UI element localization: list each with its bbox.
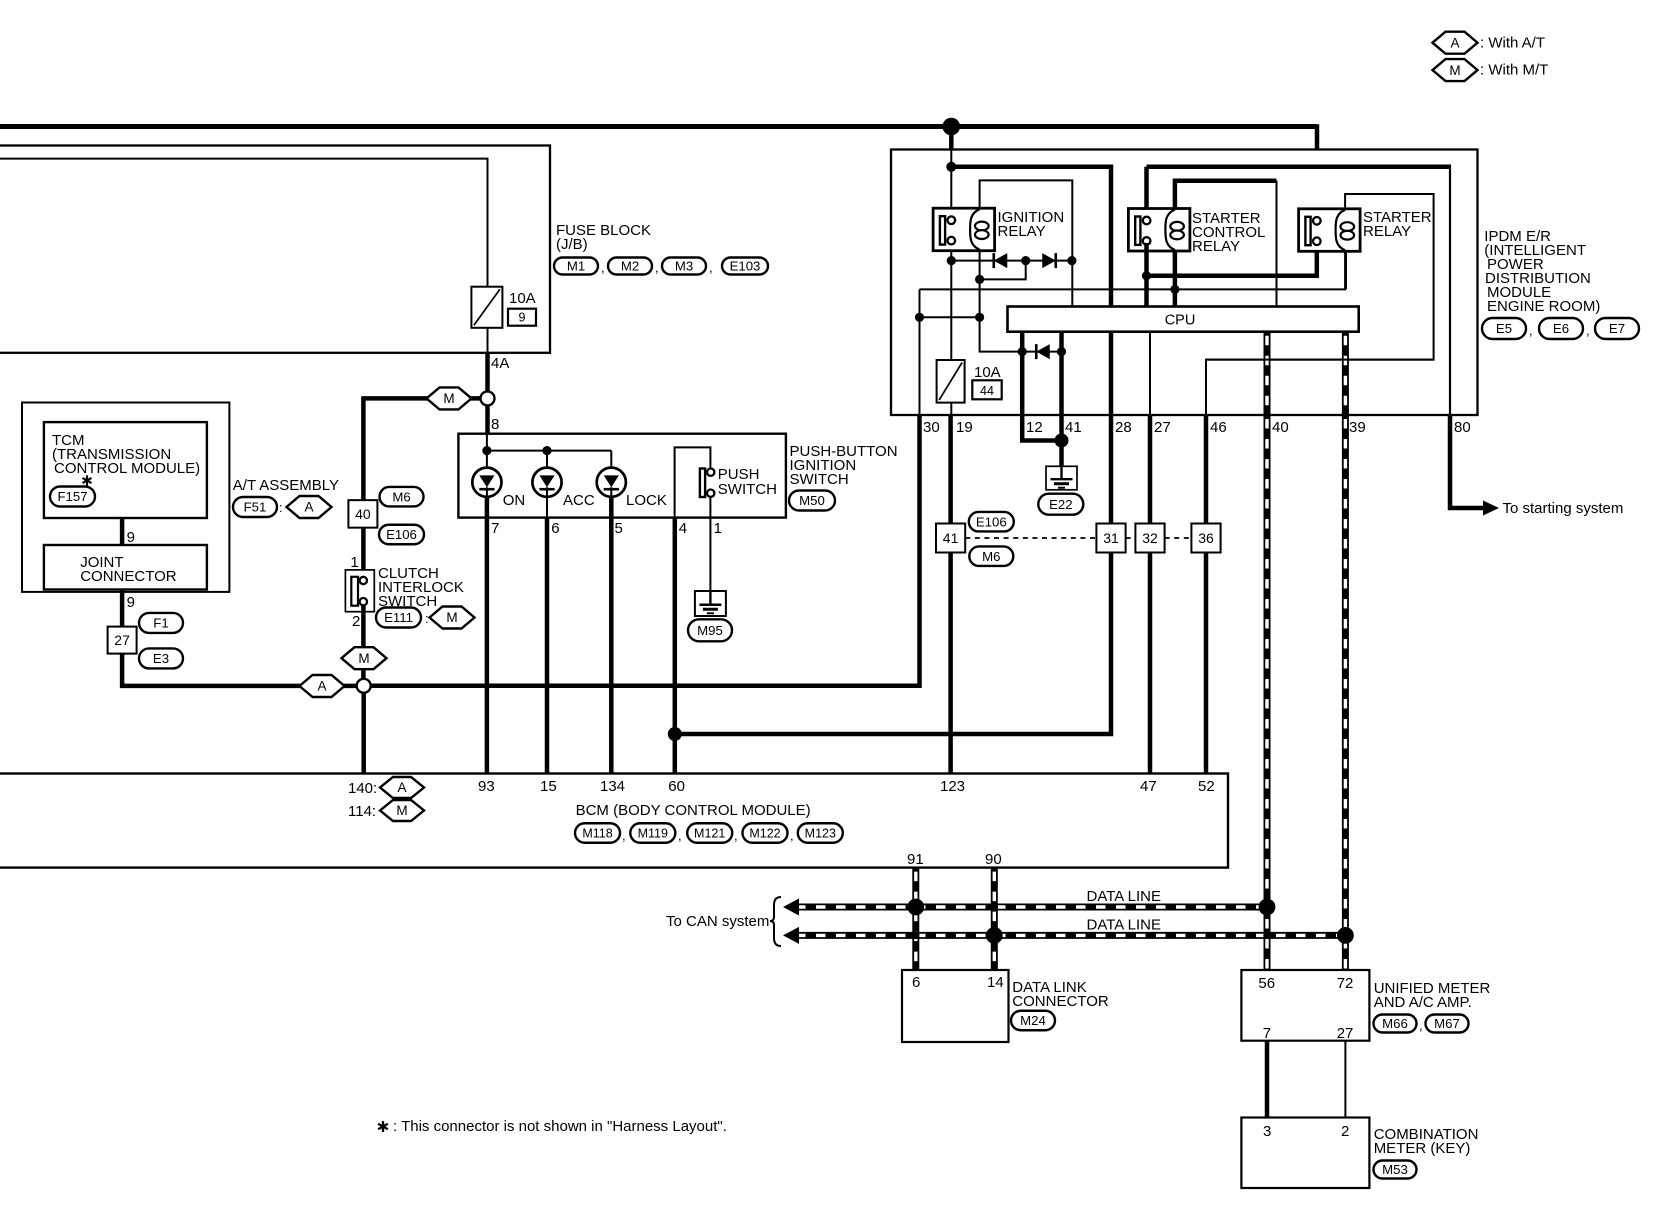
svg-text:E5: E5 [1496,321,1512,336]
node pin30 link left [915,313,924,322]
wire data line 2 [792,932,1345,939]
wire ACC LED to box bottom [546,451,548,468]
svg-text:M6: M6 [392,489,410,504]
wire joint connector down [120,590,125,628]
svg-text:E103: E103 [730,259,761,274]
svg-text:28: 28 [1115,419,1132,436]
svg-text:93: 93 [478,778,495,795]
svg-text:19: 19 [956,419,973,436]
wire ON LED to box bottom [486,451,488,468]
connector box 41 [936,524,965,553]
svg-text:56: 56 [1258,975,1275,992]
svg-text:: With A/T: : With A/T [1480,34,1545,51]
svg-text:12: 12 [1026,419,1043,436]
wire UM27 to comb meter 2 [1344,1041,1346,1118]
diode D3 [1036,344,1050,359]
svg-text:8: 8 [491,416,499,433]
wire pin12 elbow [1022,415,1061,441]
svg-text:2: 2 [352,613,360,630]
wire BCM 91 shielded [912,868,919,970]
connector M6 above [380,487,424,507]
node starter control coil-CPU [1170,285,1179,294]
svg-text:M118: M118 [582,826,612,840]
svg-text:(J/B): (J/B) [556,236,588,253]
svg-text:123: 123 [940,778,965,795]
node data1-40 [1259,899,1276,916]
wire LOCK LED to box bottom [609,495,614,518]
hexagon M on wire [342,647,387,669]
svg-text:39: 39 [1349,419,1366,436]
svg-text:,: , [601,260,605,275]
wire pin5 to BCM 134 [609,518,614,774]
svg-text:,: , [1529,323,1533,338]
wire sc contact riser [1144,167,1149,215]
svg-text:METER (KEY): METER (KEY) [1374,1140,1471,1157]
wire CPU to pin28 [1109,332,1114,415]
wire CPU to pin12 [1020,332,1025,415]
wire starter coil bottom [1344,251,1346,289]
svg-text:: With M/T: : With M/T [1480,62,1548,79]
svg-text:M95: M95 [697,623,723,638]
IPDM E/R box [891,150,1478,416]
wire battery feed inside fuse block [0,159,488,287]
wire clutch switch to node [361,605,366,679]
svg-text:ACC: ACC [563,492,595,509]
connector M2 [608,258,652,275]
svg-text:: This connector is not shown: : This connector is not shown in "Harnes… [393,1118,727,1135]
legend M hexagon (With M/T) [1433,59,1478,81]
fuse 10A 44 [937,360,965,403]
TCM outer box [22,403,229,592]
wire cross link [920,288,1347,290]
svg-text:72: 72 [1337,975,1354,992]
svg-text:90: 90 [985,851,1002,868]
svg-text:31: 31 [1103,530,1119,546]
arrow data line 2 [783,927,799,944]
svg-text:5: 5 [615,520,623,537]
push-button ignition switch box [458,434,786,518]
wire sc contact bottom to CPU [1144,243,1149,307]
connector M6 [969,546,1013,566]
svg-text:M66: M66 [1382,1016,1408,1031]
wire pin30 link [920,316,980,318]
svg-text:134: 134 [600,778,625,795]
svg-text:E106: E106 [386,527,417,542]
svg-text:M121: M121 [694,826,725,840]
indicator LOCK [597,468,626,497]
wire internal feed [486,434,488,451]
svg-text:M50: M50 [799,493,825,508]
svg-text:M53: M53 [1382,1162,1408,1177]
hexagon A (A/T) [287,496,332,518]
svg-text:E22: E22 [1049,497,1072,512]
svg-text:7: 7 [491,520,499,537]
diode D2 [1042,253,1056,268]
connector F1 [139,613,183,633]
wire relay feed thick [951,167,1111,307]
wire pin4 to push switch [675,447,711,517]
svg-text:CONNECTOR: CONNECTOR [80,568,177,585]
wire ignition coil top to CPU [980,180,1073,306]
svg-text:RELAY: RELAY [1192,238,1240,255]
wire fuse44 to box bottom [950,403,952,415]
svg-text:M: M [396,803,407,818]
push switch symbol [700,469,705,498]
wire pin27 to BCM 47 [1148,415,1153,774]
dashed link 32-36 [1165,537,1192,539]
connector M3 [662,258,706,275]
TCM inner box [44,422,207,518]
svg-text:E3: E3 [153,651,169,666]
connector M119 [630,823,675,843]
wire sc coil bottom to CPU [1173,251,1178,307]
svg-text:A: A [304,500,313,515]
svg-text:M122: M122 [749,826,780,840]
svg-text:DATA LINE: DATA LINE [1087,888,1161,905]
node diode row right [1067,256,1076,265]
svg-text:,: , [678,828,682,843]
wire pin41 to ground [1059,415,1064,466]
svg-text:,: , [1586,323,1590,338]
svg-text:E7: E7 [1609,321,1625,336]
wire pin30 to node [371,415,920,686]
svg-text:M6: M6 [982,549,1000,564]
svg-text:114:: 114: [348,803,376,820]
arrow to starting system [1483,501,1499,516]
svg-text:2: 2 [1341,1123,1349,1140]
svg-text:,: , [734,828,738,843]
wire diode row [951,260,1072,262]
svg-text:30: 30 [923,419,940,436]
svg-text:4A: 4A [491,355,509,372]
wire CPU to pin41 [1059,332,1064,415]
svg-text:27: 27 [1337,1025,1354,1042]
BCM box [0,774,1228,868]
svg-text::: : [279,500,283,515]
svg-text:ENGINE ROOM): ENGINE ROOM) [1487,298,1600,315]
wire sc coil top loop [1175,181,1277,209]
svg-text:E106: E106 [976,514,1007,529]
connector E106 below [379,525,424,545]
svg-text:A: A [397,780,406,795]
connector F157 [50,487,95,507]
connector M53 [1374,1161,1417,1179]
connector box 36 [1191,524,1220,553]
wire pin6 to BCM 15 [545,518,550,774]
connector E103 [722,258,768,275]
svg-text:F51: F51 [244,500,267,515]
connector E5 [1482,318,1526,339]
connector box 27 [108,627,137,654]
crossing patch 40-dataline2 [1263,932,1270,939]
unified meter box [1241,970,1369,1041]
svg-text:36: 36 [1198,530,1214,546]
svg-text:,: , [622,828,626,843]
node feed-ON [482,446,491,455]
hexagon M on branch [427,387,472,409]
wire pin1 to ground M95 [709,518,711,591]
wire ignition contact to fuse [950,244,952,360]
wire 27 down and right to node [122,653,357,686]
svg-text:CONNECTOR: CONNECTOR [1012,993,1109,1010]
svg-text:A/T ASSEMBLY: A/T ASSEMBLY [233,477,339,494]
wire 4A fuse block to node [485,353,490,392]
svg-text:44: 44 [980,384,994,398]
node data2-90 [986,927,1003,944]
crossing patch 91-dataline2 [912,932,919,939]
relay starter control relay [1128,209,1190,252]
fuse number box 9 [508,309,536,326]
footnote asterisk [382,1121,384,1132]
svg-text:41: 41 [943,530,959,546]
svg-text:SWITCH: SWITCH [718,481,777,498]
svg-text:27: 27 [1154,419,1171,436]
wire data line 1 [792,904,1267,911]
node lower diode left [1018,347,1027,356]
connector box 31 [1096,524,1125,553]
svg-text:F1: F1 [153,616,168,631]
svg-text:ON: ON [503,492,526,509]
svg-text:M: M [446,610,457,625]
wire push switch to box bottom [709,497,711,518]
dashed link 41-31 [965,537,1095,539]
svg-text:41: 41 [1065,419,1082,436]
svg-text:M: M [358,651,369,666]
svg-text:9: 9 [127,529,135,546]
svg-text:10A: 10A [974,364,1001,381]
wire node to BCM 140 [361,692,366,773]
fuse 10A 9 [471,287,502,328]
svg-text:27: 27 [114,632,130,648]
wire bus riser to ignition relay [949,127,954,150]
svg-text:14: 14 [987,974,1004,991]
connector E111 [376,608,421,628]
svg-text:40: 40 [1272,419,1289,436]
fuse block J/B box [0,146,550,353]
svg-text:SWITCH: SWITCH [790,471,849,488]
svg-text:10A: 10A [509,290,536,307]
node bus junction at fuse-block riser [943,118,961,136]
fuse number box 44 [972,380,1001,399]
indicator ACC [532,468,561,497]
svg-text:7: 7 [1263,1025,1271,1042]
connector E22 [1038,494,1083,515]
wire M-branch horizontal [363,396,481,401]
svg-text:AND A/C AMP.: AND A/C AMP. [1374,994,1472,1011]
connector box 32 [1135,524,1164,553]
connector M24 [1011,1011,1055,1031]
wire node to push-button switch [485,405,490,434]
node data2-39 [1337,927,1354,944]
relay ignition relay [933,208,995,251]
svg-text:,: , [1419,1018,1423,1033]
svg-text:RELAY: RELAY [998,223,1046,240]
svg-text:46: 46 [1210,419,1227,436]
patch box edge at pin40 [1263,413,1270,417]
wire pin4 to BCM 60 [673,518,678,774]
svg-text:To CAN system: To CAN system [666,913,769,930]
wire diode branch [980,261,1026,280]
svg-text:4: 4 [679,520,687,537]
svg-text:3: 3 [1263,1123,1271,1140]
combination meter box [1241,1118,1369,1189]
svg-text:32: 32 [1142,530,1158,546]
joint connector box [44,545,207,590]
svg-text:1: 1 [714,520,722,537]
wire UM7 to comb meter 3 [1265,1041,1270,1118]
connector M67 [1426,1015,1469,1033]
svg-text:E6: E6 [1553,321,1569,336]
svg-text:M3: M3 [675,259,693,274]
node pin30 link right [975,313,984,322]
wire pin80 to starting system [1450,415,1483,508]
svg-text:1: 1 [350,554,358,571]
wire pin39 shielded down [1342,415,1349,970]
node open junction at BCM branch [357,679,371,693]
svg-text:6: 6 [551,520,559,537]
wire bus riser to starter relay contact [1315,124,1320,217]
connector E7 [1595,318,1639,339]
patch box edge at pin39 [1342,413,1349,417]
svg-text:M2: M2 [621,259,639,274]
svg-text:LOCK: LOCK [626,492,667,509]
diode D1 [994,253,1008,268]
data link connector box [902,970,1009,1042]
clutch interlock switch [345,570,374,612]
wire CPU to pin39 shielded [1342,332,1349,415]
connector E6 [1539,318,1583,339]
svg-text:M24: M24 [1020,1013,1046,1028]
node feed junction [946,162,956,172]
connector box 40 [348,500,377,528]
svg-text:A: A [1450,35,1459,50]
connector M1 [554,258,598,275]
svg-text::: : [425,611,429,626]
svg-text:15: 15 [540,778,557,795]
asterisk above F157 [86,475,88,485]
wire ignition coil bottom down [980,251,1023,352]
node sc contact branch [1142,271,1151,280]
svg-text:91: 91 [907,851,924,868]
indicator ON [472,468,501,497]
wire pin7 to BCM 93 [485,518,490,774]
svg-text:BCM (BODY CONTROL MODULE): BCM (BODY CONTROL MODULE) [576,802,811,819]
wire M-branch down to connector 40 [361,396,366,500]
node diode row left [947,256,956,265]
wire node to IPDM pin28 [675,415,1111,734]
relay starter relay [1299,209,1361,252]
svg-text:40: 40 [355,506,371,522]
node open junction 4A [481,391,495,405]
wire pin40 shielded down [1264,415,1271,970]
svg-text:M119: M119 [638,826,668,840]
wire 40 to clutch switch [361,528,366,577]
wire CPU to pin27 [1149,332,1151,415]
svg-text:52: 52 [1198,778,1215,795]
ground E22 [1046,466,1077,490]
wire main power bus [0,124,1317,129]
ground M95 [695,591,726,616]
connector M50 [789,491,835,511]
connector M122 [743,823,788,843]
svg-text:CPU: CPU [1165,313,1196,329]
wire starter coil top to pin46 [1206,194,1434,415]
svg-text:47: 47 [1140,778,1157,795]
connector M123 [798,823,843,843]
connector E3 [139,648,183,668]
svg-text:9: 9 [519,311,526,325]
svg-text:To starting system: To starting system [1503,500,1624,517]
wire sc to starter relay contact [1147,244,1317,275]
svg-text:,: , [655,260,659,275]
connector E106 [969,512,1014,532]
svg-text:F157: F157 [57,489,87,504]
node pin4-IPDM28 junction [668,727,682,741]
crossing patch 90-dataline1 [991,903,998,910]
wire pin46 loop repaint [1206,359,1434,361]
node lower diode right [1057,347,1066,356]
wire pin46 to BCM 52 [1204,415,1209,774]
wire TCM to joint connector [120,518,125,545]
hexagon M (M/T) [430,607,475,629]
svg-text:80: 80 [1454,419,1471,436]
wire lower diode row [1022,351,1061,353]
hexagon A on wire [300,675,345,697]
svg-text:E111: E111 [384,610,413,625]
wire pin30 riser [919,289,921,415]
node diode row mid [1021,256,1030,265]
svg-text:60: 60 [668,778,685,795]
node data1-91 [907,899,924,916]
connector M66 [1374,1015,1417,1033]
svg-text:CONTROL MODULE): CONTROL MODULE) [54,460,200,477]
arrow data line 1 [783,899,799,916]
svg-text:,: , [709,260,713,275]
wire pin19 to BCM 123 [948,415,953,774]
svg-text:DATA LINE: DATA LINE [1087,917,1161,934]
svg-text:M123: M123 [805,826,836,840]
wire fuse to fuse-block edge [487,328,489,353]
brace [770,897,781,946]
connector M95 [688,619,732,641]
wire bus riser inside IPDM [950,150,952,217]
svg-text:M1: M1 [567,259,585,274]
node feed-ACC [542,446,551,455]
node coil-diode branch [975,275,984,284]
svg-text:9: 9 [127,594,135,611]
node pin12-41 junction [1055,434,1069,448]
svg-text:A: A [317,679,326,694]
svg-text:M: M [1449,63,1460,78]
CPU box [1008,307,1359,332]
connector F51 [233,497,277,517]
legend A hexagon (With A/T) [1433,32,1478,54]
connector M118 [575,823,620,843]
svg-text:M: M [443,391,454,406]
svg-text:140:: 140: [348,780,377,797]
dashed link 31-32 [1126,537,1136,539]
wire BCM 90 shielded [991,868,998,970]
svg-text:M67: M67 [1434,1016,1460,1031]
wire CPU to pin40 shielded [1264,332,1271,415]
svg-text:,: , [790,828,794,843]
svg-text:6: 6 [912,974,920,991]
svg-text:RELAY: RELAY [1363,223,1411,240]
connector M121 [687,823,732,843]
